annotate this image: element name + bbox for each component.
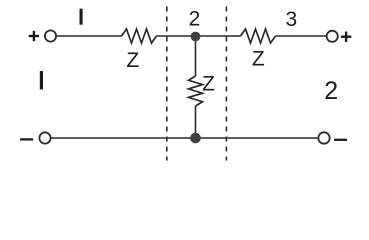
wire top-right (276, 35, 327, 37)
port label 1 (40, 71, 43, 89)
plus sign at port 2 (341, 32, 351, 42)
minus sign bottom-left (20, 138, 33, 140)
minus sign bottom-right (334, 139, 347, 141)
svg-text:Z: Z (252, 48, 265, 71)
resistor Z (shunt) (189, 76, 203, 106)
svg-text:2: 2 (324, 77, 338, 105)
vertical wire upper (195, 36, 197, 76)
plus sign at port 1 (29, 31, 39, 41)
wire top-middle (157, 35, 241, 37)
svg-text:3: 3 (285, 8, 297, 31)
node label 1 (80, 9, 83, 25)
svg-text:Z: Z (126, 49, 139, 72)
resistor Z (left series) (122, 29, 157, 43)
port 2 + terminal circle (327, 31, 338, 42)
bottom-left terminal circle (39, 132, 50, 143)
vertical wire lower (195, 106, 197, 138)
port 1 + terminal circle (45, 30, 56, 41)
bottom-right terminal circle (318, 132, 329, 143)
svg-text:Z: Z (202, 73, 215, 96)
dashed boundary line right (225, 7, 227, 161)
resistor Z (right series) (241, 29, 276, 43)
svg-text:2: 2 (189, 7, 201, 30)
bottom wire (51, 137, 317, 139)
junction dot (bottom) (190, 133, 201, 144)
wire top-left (57, 35, 122, 37)
dashed boundary line left (166, 7, 168, 161)
node 2 junction dot (top) (191, 32, 201, 42)
